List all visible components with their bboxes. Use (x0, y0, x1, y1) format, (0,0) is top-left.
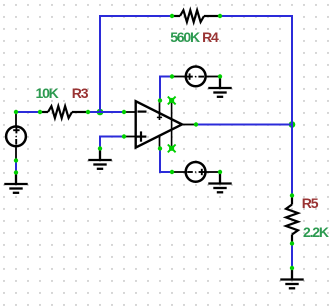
wire V1 bottom to ground (15, 161, 17, 173)
unconnected pin marker X (top) (168, 97, 176, 105)
node V3 negative terminal (170, 170, 174, 174)
wire V1 top to R3 left (16, 111, 40, 113)
svg-text:R5: R5 (302, 195, 319, 211)
voltage source V1 (6, 112, 26, 161)
ground (R5) (280, 268, 303, 288)
wire R5 bottom to ground (291, 244, 293, 269)
wire non-inverting input to ground (100, 137, 124, 149)
wire V+ pin to supply V2 (160, 77, 172, 101)
node op-amp inverting input terminal (122, 110, 126, 114)
node V3 positive terminal / ground (218, 170, 222, 174)
wire R3 right to op-amp inverting input (88, 111, 124, 113)
node ground terminal (non-inverting input) (98, 146, 102, 150)
node R4 right terminal (218, 14, 222, 18)
op-amp V- pin (159, 135, 161, 149)
op-amp offset pin (unconnected) (171, 101, 173, 149)
voltage source V2 (positive supply) (172, 67, 220, 87)
wire op-amp output to junction OUT (196, 124, 292, 126)
unconnected pin marker X (bottom) (168, 145, 176, 153)
node R5 top terminal (290, 193, 294, 197)
wire feedback riser and top run to R4 left (100, 16, 172, 112)
svg-text:10K: 10K (36, 85, 59, 101)
node ground terminal (R5) (290, 266, 294, 270)
wire V- pin to supply V3 (160, 149, 172, 173)
node op-amp V- pin terminal (158, 146, 162, 150)
node R4 left terminal (170, 14, 174, 18)
node V1 negative terminal (14, 158, 18, 162)
junction node A (R3 / feedback riser) (97, 109, 104, 116)
node V2 positive terminal (170, 74, 174, 78)
wire R4 right to output column down to R5 (220, 16, 292, 196)
junction node OUT (output / feedback / R5) (289, 121, 296, 128)
node ground terminal (V1) (14, 170, 18, 174)
svg-text:R3: R3 (72, 85, 89, 101)
svg-text:2.2K: 2.2K (303, 224, 329, 240)
node op-amp output terminal (194, 122, 198, 126)
node op-amp V+ pin terminal (158, 98, 162, 102)
node V1 positive terminal (14, 110, 18, 114)
node R3 left terminal (38, 110, 42, 114)
ground (V1) (4, 173, 27, 193)
ground (V2) (208, 77, 231, 97)
op-amp V+ pin (159, 101, 161, 121)
voltage source V3 (negative supply) (172, 162, 220, 182)
op-amp output lead (182, 124, 196, 126)
op-amp U1 (124, 101, 196, 149)
svg-text:R4: R4 (202, 29, 219, 45)
node V2 negative terminal / ground (218, 74, 222, 78)
ground (V3) (208, 172, 231, 192)
resistor R3 (40, 106, 88, 118)
svg-text:560K: 560K (170, 29, 200, 45)
resistor R5 (286, 196, 298, 244)
resistor R4 (172, 10, 220, 22)
node R5 bottom terminal (290, 241, 294, 245)
node op-amp non-inverting input terminal (122, 134, 126, 138)
node R3 right terminal (86, 110, 90, 114)
ground (non-inverting input) (88, 149, 111, 169)
